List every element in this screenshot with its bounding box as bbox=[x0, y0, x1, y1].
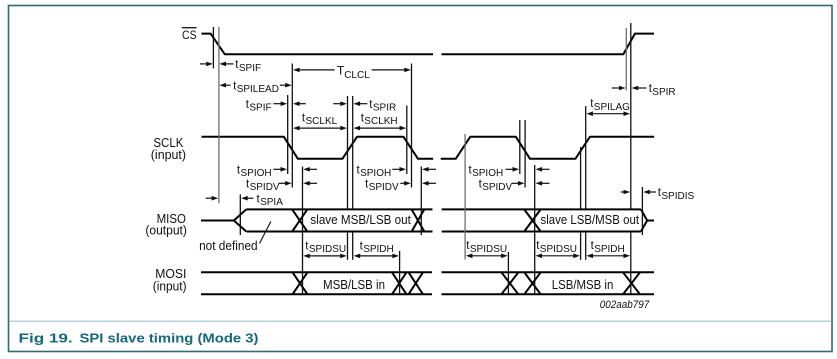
dimension tSPIDSU left bbox=[308, 255, 343, 257]
svg-text:slave MSB/LSB out: slave MSB/LSB out bbox=[310, 212, 411, 227]
dimension tSPIA (access time) bbox=[206, 197, 214, 199]
ref line CS fall end (gray rail) bbox=[218, 27, 220, 203]
ref line SCLK rise3 start (upper) bbox=[580, 147, 582, 209]
ref line CS rise end tall (upper) bbox=[630, 23, 632, 209]
svg-text:SPIR: SPIR bbox=[373, 103, 396, 114]
ref line MISO X3 valid bbox=[534, 165, 536, 295]
svg-text:not defined: not defined bbox=[199, 238, 258, 253]
wire MOSI bus top line segments bbox=[201, 271, 432, 273]
svg-text:Fig 19.: Fig 19. bbox=[19, 331, 73, 346]
wire SCLK waveform right section bbox=[441, 137, 654, 159]
MOSI bus crossover X2b bbox=[409, 272, 424, 294]
svg-text:SPIR: SPIR bbox=[652, 87, 675, 98]
dimension tSPIR (CS rise time) bbox=[612, 87, 621, 89]
ref line SCLK fall3 end bbox=[524, 120, 526, 188]
svg-text:SPIDV: SPIDV bbox=[482, 182, 512, 193]
svg-text:SPIDSU: SPIDSU bbox=[540, 244, 577, 255]
dimension tSPIDIS (disable time) bbox=[621, 191, 626, 193]
dimension tSPIDH right bbox=[591, 255, 626, 257]
svg-text:SPIOH: SPIOH bbox=[472, 168, 503, 179]
ref line SCLK rise1 end (upper) bbox=[352, 96, 354, 209]
svg-text:(output): (output) bbox=[145, 222, 187, 237]
ref line SCLK rise3 end (upper) bbox=[585, 106, 587, 209]
ref line SCLK rise1 start (upper) bbox=[347, 96, 349, 209]
svg-text:(input): (input) bbox=[153, 279, 187, 294]
wire SCLK waveform left section bbox=[202, 137, 434, 159]
MOSI bus crossover X1 bbox=[293, 272, 308, 294]
MOSI bus crossover X2a bbox=[392, 272, 407, 294]
dimension tSPILAG bbox=[591, 113, 626, 115]
svg-text:(input): (input) bbox=[151, 147, 186, 162]
MOSI bus crossover X3b bbox=[524, 272, 540, 294]
dimension tSPIDSU right-first bbox=[470, 255, 503, 257]
svg-text:SPIF: SPIF bbox=[239, 63, 261, 74]
svg-text:CS: CS bbox=[182, 28, 197, 42]
wire MISO bus closing slants and tail bbox=[641, 209, 647, 231]
ref line MOSI X3 center bbox=[507, 252, 509, 295]
dimension tSCLKL (clock low width) bbox=[298, 127, 343, 129]
ref line SCLK fall3 start bbox=[519, 120, 521, 174]
svg-text:MSB/LSB in: MSB/LSB in bbox=[323, 277, 385, 292]
ref line SCLK rise3 end (lower) bbox=[585, 232, 587, 260]
wire CS waveform right: low, rise, high bbox=[442, 34, 655, 55]
ref line MISO X1 valid bbox=[302, 167, 304, 295]
wire MOSI bus bottom line segments bbox=[201, 293, 432, 295]
svg-text:SCLKH: SCLKH bbox=[364, 116, 397, 127]
svg-text:SPIF: SPIF bbox=[249, 103, 271, 114]
svg-text:CLCL: CLCL bbox=[344, 70, 370, 81]
dimension tSPIDSU right-second bbox=[540, 255, 576, 257]
ref line CS fall start bbox=[212, 27, 214, 68]
ref line SCLK rise3 start (lower) bbox=[580, 232, 582, 260]
svg-text:SPIDIS: SPIDIS bbox=[661, 191, 694, 202]
MISO bus crossover X2 bbox=[412, 209, 425, 231]
ref line gray rail right bbox=[625, 28, 627, 90]
svg-text:SPIDV: SPIDV bbox=[369, 182, 399, 193]
svg-text:SPIDSU: SPIDSU bbox=[309, 244, 346, 255]
ref line SCLK rise1 start (lower) bbox=[347, 232, 349, 260]
dimension tSPILEAD bbox=[224, 84, 231, 86]
ref line MISO X2 valid bbox=[420, 167, 422, 236]
svg-text:SPIDH: SPIDH bbox=[363, 244, 394, 255]
wire MISO bus top line segments bbox=[246, 208, 432, 210]
ref line SCLK fall1 end bbox=[291, 64, 293, 188]
ref line tSPIA end bbox=[239, 194, 241, 235]
ref line SCLK fall2 start bbox=[406, 106, 408, 174]
dimension TCLCL (clock period) bbox=[293, 68, 300, 73]
MISO bus crossover X3 bbox=[524, 209, 541, 231]
ref line gray rail mid bbox=[464, 134, 466, 260]
MOSI bus crossover X3a bbox=[501, 272, 518, 294]
MISO bus crossover X1 bbox=[292, 209, 307, 231]
ref line MOSI X2 center bbox=[399, 251, 401, 294]
wire CS waveform left: high, fall, low bbox=[202, 34, 434, 55]
ref line SCLK rise1 end (lower) bbox=[352, 232, 354, 260]
svg-text:slave LSB/MSB out: slave LSB/MSB out bbox=[541, 212, 640, 227]
wire MISO input stub line bbox=[201, 220, 234, 222]
wire MISO bus bottom line segments bbox=[246, 231, 432, 233]
dimension tSPIF (CS fall time) bbox=[200, 63, 208, 65]
ref line SCLK fall1 start bbox=[287, 95, 289, 174]
svg-text:SPILAG: SPILAG bbox=[594, 102, 630, 113]
svg-text:002aab797: 002aab797 bbox=[600, 299, 650, 311]
svg-text:SPI slave timing (Mode 3): SPI slave timing (Mode 3) bbox=[80, 331, 259, 346]
svg-text:SPIDV: SPIDV bbox=[250, 182, 280, 193]
wire MISO bus opening slants bbox=[234, 209, 247, 231]
svg-text:SPIDH: SPIDH bbox=[594, 244, 625, 255]
svg-text:SPIA: SPIA bbox=[260, 197, 283, 208]
MOSI bus crossover X4 bbox=[623, 272, 640, 294]
dimension tSPIR (SCLK rise time) bbox=[333, 103, 342, 105]
svg-text:SPIDSU: SPIDSU bbox=[470, 244, 507, 255]
dimension tSPIDH left bbox=[358, 255, 394, 257]
ref line SCLK fall2 end bbox=[411, 64, 413, 188]
ref line MISO close bbox=[641, 187, 643, 235]
ref line CS rise end tall (lower) bbox=[630, 232, 632, 295]
caption separator line bbox=[10, 320, 832, 322]
dimension tSCLKH (clock high width) bbox=[358, 127, 402, 129]
svg-text:SPILEAD: SPILEAD bbox=[237, 84, 279, 95]
svg-text:LSB/MSB in: LSB/MSB in bbox=[552, 277, 614, 292]
svg-text:SCLKL: SCLKL bbox=[306, 116, 338, 127]
